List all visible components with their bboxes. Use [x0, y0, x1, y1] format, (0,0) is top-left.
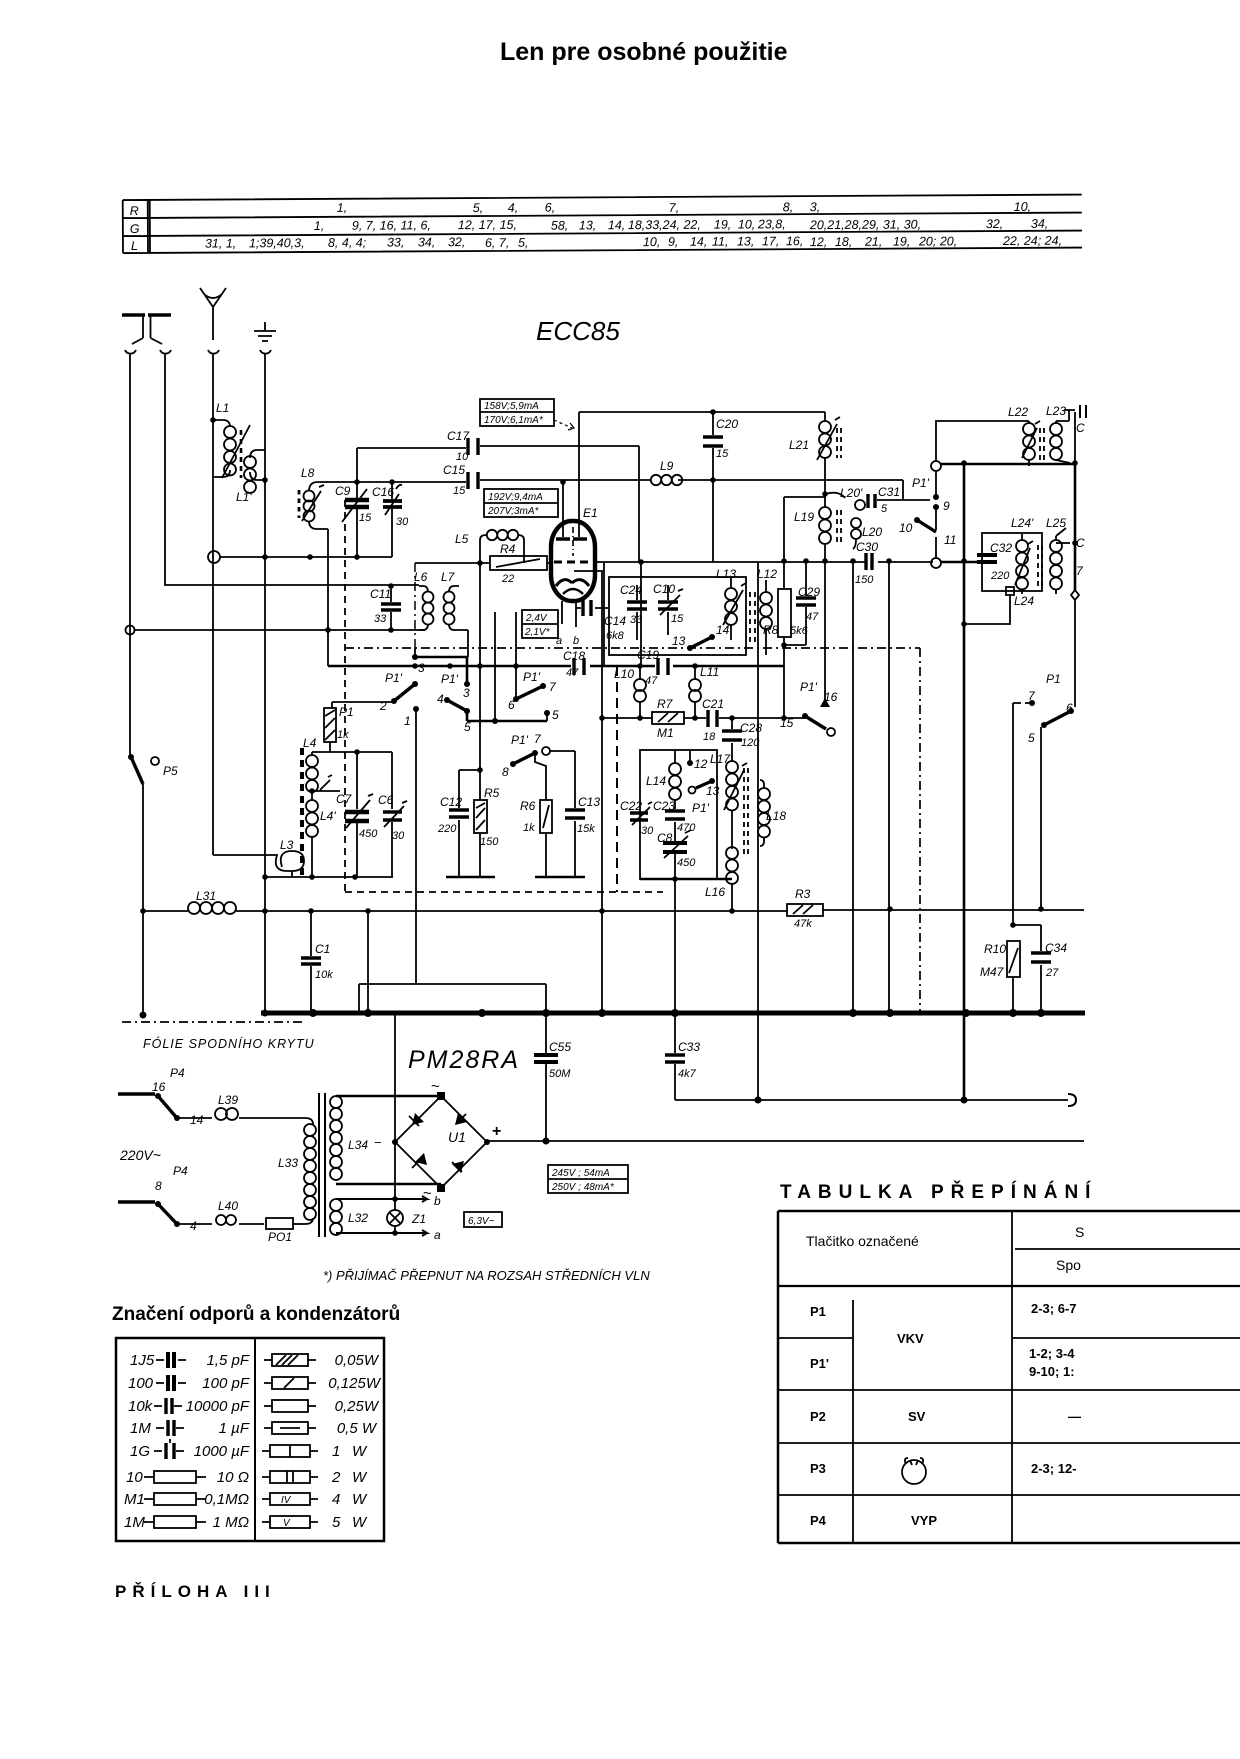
fragment cap right edge mid [1076, 536, 1085, 578]
svg-text:−: − [374, 1135, 382, 1150]
switch P1' sw3 [508, 612, 557, 712]
svg-text:L5: L5 [455, 532, 469, 546]
svg-text:P1': P1' [810, 1356, 829, 1371]
svg-text:15: 15 [359, 512, 372, 524]
svg-text:VYP: VYP [911, 1513, 937, 1528]
svg-text:C6: C6 [378, 793, 394, 807]
capacitor C16 trimmer [372, 482, 409, 557]
svg-text:S: S [1075, 1224, 1084, 1240]
svg-text:L31: L31 [196, 889, 216, 903]
resistor R7 [652, 697, 684, 740]
svg-text:R: R [130, 204, 139, 218]
svg-text:P5: P5 [163, 764, 178, 778]
svg-text:16,: 16, [786, 234, 803, 248]
svg-text:5,: 5, [518, 236, 529, 250]
switch P4 upper [118, 1066, 204, 1127]
resistor R5 [474, 786, 500, 848]
svg-text:21,: 21, [864, 235, 882, 249]
wire: L34 bottom to bridge [336, 1183, 441, 1186]
svg-text:M47: M47 [980, 965, 1005, 979]
svg-text:30: 30 [396, 516, 409, 528]
svg-text:5: 5 [1028, 731, 1035, 745]
svg-text:P1': P1' [692, 801, 710, 815]
svg-text:P1': P1' [385, 671, 403, 685]
inductor L7 [441, 570, 468, 657]
node L24 tap [964, 587, 1034, 624]
switch contact 13 P1' [689, 778, 720, 815]
svg-text:PM28RA: PM28RA [408, 1046, 520, 1074]
svg-text:C1: C1 [315, 942, 330, 956]
svg-text:1,: 1, [314, 219, 325, 233]
svg-text:P1': P1' [800, 680, 818, 694]
svg-text:34,: 34, [1031, 217, 1048, 231]
node L25 diamond [1071, 590, 1079, 600]
wire: y557 bus to RF caps [220, 556, 392, 558]
svg-text:PO1: PO1 [268, 1230, 292, 1244]
svg-text:30: 30 [392, 830, 405, 842]
svg-text:23,8,: 23,8, [757, 217, 786, 231]
svg-text:*) PŘIJÍMAČ PŘEPNUT NA ROZSAH: *) PŘIJÍMAČ PŘEPNUT NA ROZSAH STŘEDNÍCH … [323, 1268, 650, 1283]
wire: x784 column R8 [783, 497, 785, 718]
svg-text:b: b [573, 635, 579, 647]
inductor L19 [794, 503, 841, 703]
svg-text:8: 8 [155, 1179, 162, 1193]
svg-text:18,: 18, [835, 235, 852, 249]
svg-text:L33: L33 [278, 1156, 298, 1170]
svg-text:2-3; 12-: 2-3; 12- [1031, 1461, 1077, 1476]
winding L34 [330, 1096, 368, 1180]
legend row M1 [124, 1491, 249, 1508]
svg-text:34,: 34, [418, 235, 435, 249]
switch P1' sw2 [437, 612, 559, 734]
svg-text:P3: P3 [810, 1461, 826, 1476]
inductor L20' [825, 486, 865, 510]
svg-text:1k: 1k [523, 822, 535, 834]
wire: ground vertical [264, 353, 266, 1013]
legend box [116, 1338, 384, 1541]
svg-text:E1: E1 [583, 506, 598, 520]
svg-text:L: L [131, 239, 138, 253]
inductor L8 [299, 466, 357, 529]
svg-text:0,25W: 0,25W [335, 1398, 380, 1415]
legend row 0,125W [264, 1375, 382, 1392]
svg-text:Tlačitko označené: Tlačitko označené [806, 1233, 919, 1249]
resistor R8 [763, 589, 809, 648]
AM antenna dipole symbol [122, 315, 171, 354]
svg-text:3,: 3, [810, 200, 821, 214]
svg-text:12, 17, 15,: 12, 17, 15, [458, 218, 517, 232]
svg-text:13: 13 [706, 784, 720, 798]
switch P1' sw4 [502, 732, 575, 805]
wire: left antenna vertical 2 [165, 353, 419, 585]
wire: C7 C6 frame [312, 752, 392, 809]
wire: y630 line [134, 629, 425, 631]
svg-text:FÓLIE SPODNÍHO KRYTU: FÓLIE SPODNÍHO KRYTU [143, 1036, 315, 1051]
svg-text:R5: R5 [484, 786, 500, 800]
svg-text:12: 12 [694, 757, 708, 771]
svg-text:L6: L6 [414, 570, 428, 584]
svg-text:19,: 19, [714, 218, 731, 232]
svg-text:L1: L1 [216, 401, 229, 415]
svg-text:L20': L20' [840, 486, 863, 500]
heater output a [336, 1228, 441, 1242]
voltage box 192V [484, 489, 558, 517]
svg-text:G: G [130, 222, 140, 236]
wire: AVC line y1100 [675, 1099, 1068, 1101]
svg-text:L12: L12 [757, 567, 777, 581]
svg-text:R10: R10 [984, 942, 1006, 956]
svg-text:C14: C14 [604, 614, 626, 628]
capacitor C22 trimmer [620, 799, 654, 837]
resistor R3 [787, 887, 823, 930]
svg-text:2: 2 [331, 1469, 341, 1486]
legend row 5W [262, 1514, 368, 1531]
svg-text:L9: L9 [660, 459, 674, 473]
svg-text:Spo: Spo [1056, 1257, 1081, 1273]
svg-text:220: 220 [990, 570, 1010, 582]
wire: y463 link [941, 463, 1075, 466]
svg-text:M1: M1 [124, 1491, 145, 1508]
svg-text:33,: 33, [387, 235, 404, 249]
svg-text:6,3V~: 6,3V~ [468, 1216, 495, 1227]
inductor L5 [455, 530, 524, 563]
inductor L17 [710, 750, 747, 849]
wire: C30 columns to bus [853, 561, 889, 1013]
svg-text:C11: C11 [370, 587, 391, 601]
FM antenna symbol [200, 288, 226, 354]
svg-text:11: 11 [944, 533, 956, 547]
wire: y561 link to C32 [941, 561, 977, 564]
inductor L1' secondary [236, 450, 268, 504]
legend row 1W [262, 1443, 368, 1460]
svg-text:1M: 1M [124, 1514, 145, 1531]
inductor L40 [177, 1199, 264, 1225]
legend row 10k [128, 1398, 250, 1415]
svg-text:50M: 50M [549, 1068, 571, 1080]
inductor L31 [143, 889, 265, 914]
capacitor C11 [370, 583, 401, 630]
svg-text:U1: U1 [448, 1129, 466, 1145]
svg-text:0,1MΩ: 0,1MΩ [204, 1491, 249, 1508]
core dashes L24' L25 [1038, 545, 1042, 590]
capacitor C24 [620, 583, 647, 640]
wire: x265 x213 drops [262, 1010, 269, 1017]
svg-text:L24: L24 [1014, 594, 1034, 608]
svg-text:450: 450 [677, 857, 696, 869]
svg-text:R6: R6 [520, 799, 536, 813]
svg-text:C32: C32 [990, 541, 1012, 555]
svg-text:C: C [1076, 421, 1085, 435]
switch P1' sw1 [332, 654, 470, 713]
svg-text:4: 4 [190, 1219, 197, 1233]
svg-text:L14: L14 [646, 774, 666, 788]
voltage box 245V [548, 1165, 628, 1193]
svg-text:10: 10 [126, 1469, 143, 1486]
svg-text:C22: C22 [620, 799, 642, 813]
svg-text:L7: L7 [441, 570, 456, 584]
wire: C12 R5 bottom [446, 876, 495, 879]
svg-text:L17: L17 [710, 752, 731, 766]
capacitor C33 [665, 1013, 700, 1100]
svg-text:1 MΩ: 1 MΩ [213, 1514, 249, 1531]
svg-text:1 µF: 1 µF [219, 1420, 250, 1437]
legend row 4W [262, 1491, 368, 1508]
svg-text:15: 15 [453, 485, 466, 497]
wire: left antenna vertical 1 [129, 353, 131, 757]
svg-text:10 Ω: 10 Ω [217, 1469, 249, 1486]
svg-text:158V;5,9mA: 158V;5,9mA [484, 401, 539, 412]
capacitor C8 variable [657, 830, 696, 879]
svg-text:C9: C9 [335, 484, 351, 498]
svg-text:10,: 10, [738, 217, 755, 231]
wire: plate line right of tube y562 [595, 561, 933, 563]
wire: x368 drop [367, 911, 369, 1013]
svg-text:W: W [352, 1514, 368, 1531]
svg-text:C55: C55 [549, 1040, 571, 1054]
svg-text:250V ; 48mA*: 250V ; 48mA* [551, 1182, 615, 1193]
inductor L39 [177, 1093, 305, 1120]
legend row 2W [262, 1469, 368, 1486]
resistor R10 [980, 922, 1020, 1013]
inductor L4' [306, 800, 336, 877]
svg-text:P1': P1' [523, 670, 541, 684]
capacitor C6 trimmer [378, 793, 407, 877]
svg-text:Značení odporů a kondenzátorů: Značení odporů a kondenzátorů [112, 1304, 400, 1325]
svg-text:P1: P1 [1046, 672, 1061, 686]
switch P1' 16 [800, 680, 838, 707]
svg-text:14: 14 [716, 623, 730, 637]
svg-text:0,125W: 0,125W [328, 1375, 382, 1392]
svg-text:IV: IV [281, 1495, 292, 1506]
wire: x964 column [963, 463, 966, 1100]
inductor L12 [750, 567, 777, 655]
switch contact 12 [687, 750, 708, 771]
svg-text:C21: C21 [702, 697, 724, 711]
svg-text:L10: L10 [614, 667, 634, 681]
wire: R6 C13 bottom [535, 876, 585, 879]
switch P1 right [1013, 672, 1074, 925]
svg-text:C33: C33 [678, 1040, 700, 1054]
inductor L14 [646, 750, 681, 806]
svg-text:4: 4 [332, 1491, 340, 1508]
wire table frame [123, 195, 1082, 254]
wire: long line y666 [328, 665, 784, 668]
inductor L22 [1008, 405, 1040, 466]
svg-text:C30: C30 [856, 540, 878, 554]
svg-text:0,5 W: 0,5 W [337, 1420, 378, 1437]
svg-text:C13: C13 [578, 795, 600, 809]
svg-text:16: 16 [152, 1080, 166, 1094]
svg-text:C31: C31 [878, 485, 900, 499]
svg-text:1,5 pF: 1,5 pF [206, 1352, 249, 1369]
svg-text:1-2; 3-4: 1-2; 3-4 [1029, 1346, 1075, 1361]
inductor L10 [614, 666, 646, 719]
svg-text:30: 30 [641, 825, 654, 837]
svg-text:PŘÍLOHA III: PŘÍLOHA III [115, 1582, 276, 1601]
svg-text:C20: C20 [716, 417, 738, 431]
inductor L16 [705, 847, 738, 910]
svg-text:6k8: 6k8 [606, 630, 625, 642]
wire: sw1 feed x415 [414, 563, 416, 648]
svg-text:TABULKA PŘEPÍNÁNÍ: TABULKA PŘEPÍNÁNÍ [780, 1181, 1097, 1203]
bridge rectifier U1 [374, 1078, 501, 1202]
svg-text:150: 150 [480, 836, 499, 848]
svg-text:R3: R3 [795, 887, 811, 901]
svg-text:Len pre osobné použitie: Len pre osobné použitie [500, 38, 788, 66]
svg-text:3: 3 [463, 686, 470, 700]
svg-text:Z1: Z1 [411, 1212, 426, 1226]
inductor L3 [213, 838, 304, 877]
tabulka table [778, 1211, 1240, 1543]
svg-text:W: W [352, 1491, 368, 1508]
svg-text:5,: 5, [473, 201, 484, 215]
svg-text:31, 1,: 31, 1, [205, 236, 236, 250]
svg-text:R8: R8 [763, 623, 779, 637]
svg-text:8,: 8, [783, 200, 794, 214]
svg-text:58,: 58, [551, 219, 568, 233]
svg-text:2,1V*: 2,1V* [524, 627, 551, 638]
fragment cap right edge top [1076, 405, 1086, 435]
legend row 100 [128, 1375, 250, 1392]
inductor L18 [758, 780, 786, 846]
inductor L21 [789, 412, 841, 503]
wire: B+ line y1141 [487, 1140, 1084, 1142]
svg-text:R7: R7 [657, 697, 674, 711]
svg-text:245V ; 54mA: 245V ; 54mA [551, 1168, 610, 1179]
switch P1' 9 10 11 [899, 461, 956, 568]
svg-text:P4: P4 [810, 1513, 827, 1528]
svg-text:20; 20,: 20; 20, [918, 234, 957, 248]
node: connector y1100 [1068, 1094, 1076, 1106]
svg-text:b: b [434, 1194, 441, 1208]
svg-text:L4: L4 [303, 736, 317, 750]
svg-text:a: a [556, 635, 562, 647]
tube E1 envelope [551, 412, 603, 647]
capacitor C17 [357, 429, 639, 463]
svg-text:3: 3 [418, 661, 425, 675]
svg-text:C28: C28 [740, 721, 762, 735]
capacitor C15 [357, 463, 903, 500]
svg-text:1M: 1M [130, 1420, 151, 1437]
capacitor C20 [703, 412, 738, 562]
svg-text:4: 4 [437, 692, 444, 706]
node: ring on AM line [126, 626, 135, 635]
IF transformer box C24 C10 [609, 577, 746, 655]
legend rows right [262, 1352, 382, 1531]
svg-text:P1': P1' [511, 733, 529, 747]
lamp Z1 [387, 1210, 426, 1226]
svg-text:15: 15 [716, 448, 729, 460]
capacitor C7 [336, 792, 378, 877]
wire: R7 line y718 [602, 717, 805, 719]
wire: L16 L17 junction to box [640, 878, 732, 881]
capacitor C55 [534, 1013, 571, 1145]
svg-text:1;39,40,3,: 1;39,40,3, [249, 236, 305, 250]
svg-text:14,: 14, [690, 235, 707, 249]
svg-text:5: 5 [881, 503, 888, 515]
wire: x480 column [479, 563, 481, 877]
svg-text:15k: 15k [577, 823, 595, 835]
capacitor C1 [301, 911, 333, 1013]
svg-text:14: 14 [190, 1113, 204, 1127]
switch contacts 13 14 [672, 623, 730, 651]
svg-text:SV: SV [908, 1409, 926, 1424]
svg-text:17,: 17, [762, 234, 779, 248]
svg-text:150: 150 [855, 574, 874, 586]
capacitor C32 [977, 541, 1012, 582]
svg-text:L34: L34 [348, 1138, 368, 1152]
inductor L25 [1046, 516, 1070, 594]
capacitor C31 [868, 485, 930, 515]
6,3V box [464, 1212, 502, 1227]
svg-text:10k: 10k [315, 969, 333, 981]
svg-text:220V~: 220V~ [119, 1147, 161, 1163]
svg-text:4k7: 4k7 [678, 1068, 697, 1080]
wire: x359 link [359, 984, 546, 1013]
inductor L23 [1046, 404, 1075, 463]
winding L32 [330, 1199, 368, 1235]
switch P1' 15 [780, 713, 835, 736]
svg-text:13,: 13, [737, 234, 754, 248]
legend row 0,05W [264, 1352, 380, 1369]
svg-text:33: 33 [374, 613, 387, 625]
wire: bus drop to bridge minus corner [394, 1015, 396, 1140]
svg-text:10000 pF: 10000 pF [186, 1398, 250, 1415]
svg-text:L23: L23 [1046, 404, 1066, 418]
svg-text:207V;3mA*: 207V;3mA* [487, 506, 540, 517]
svg-text:9, 7, 16, 11, 6,: 9, 7, 16, 11, 6, [352, 218, 431, 232]
svg-text:M1: M1 [657, 726, 674, 740]
svg-text:1J5: 1J5 [130, 1352, 155, 1369]
legend rows left [124, 1352, 250, 1531]
svg-text:L39: L39 [218, 1093, 238, 1107]
svg-text:9,: 9, [668, 235, 679, 249]
svg-text:18,33,24, 22,: 18,33,24, 22, [628, 218, 701, 232]
svg-text:C7: C7 [336, 792, 353, 806]
svg-text:1k: 1k [337, 729, 349, 741]
svg-text:100 pF: 100 pF [202, 1375, 250, 1392]
svg-text:P1': P1' [441, 672, 459, 686]
inductor L11 [689, 665, 719, 719]
svg-text:L3: L3 [280, 838, 294, 852]
svg-text:0,05W: 0,05W [335, 1352, 380, 1369]
transformer L33 core [319, 1093, 325, 1237]
svg-text:9-10; 1:: 9-10; 1: [1029, 1364, 1075, 1379]
winding L33 [278, 1118, 316, 1224]
oscillator coil box [640, 750, 717, 879]
svg-text:L8: L8 [301, 466, 315, 480]
svg-text:L19: L19 [794, 510, 814, 524]
switch P4 lower [118, 1164, 197, 1233]
svg-text:L22: L22 [1008, 405, 1028, 419]
legend row 1G [130, 1439, 250, 1460]
svg-text:13: 13 [672, 634, 686, 648]
svg-text:15: 15 [671, 613, 684, 625]
svg-text:27: 27 [1045, 967, 1059, 979]
voltage box 2,4V [522, 610, 558, 638]
wire: x641 vertical C17 drop [639, 446, 641, 666]
svg-text:P4: P4 [170, 1066, 185, 1080]
svg-text:2-3; 6-7: 2-3; 6-7 [1031, 1301, 1077, 1316]
heater output b [336, 1194, 441, 1208]
svg-text:6, 7,: 6, 7, [485, 236, 509, 250]
svg-text:P2: P2 [810, 1409, 826, 1424]
wire: x1075 column [1074, 412, 1076, 707]
wire: oscillator bottom y877 [265, 876, 393, 878]
top switching table [123, 195, 1082, 254]
svg-text:P4: P4 [173, 1164, 188, 1178]
svg-text:4,: 4, [508, 201, 519, 215]
